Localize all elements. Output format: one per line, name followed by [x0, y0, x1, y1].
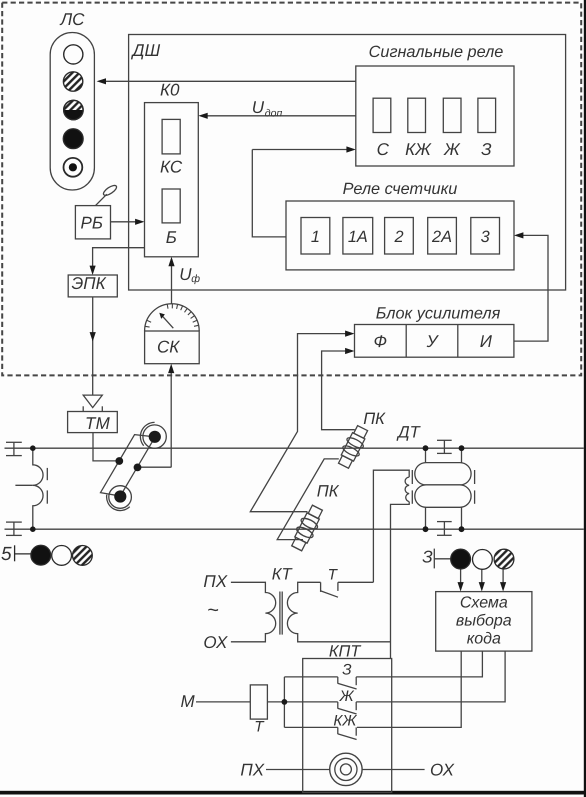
svg-text:Блок усилителя: Блок усилителя	[376, 305, 501, 323]
svg-text:ф: ф	[191, 273, 200, 285]
svg-text:ОХ: ОХ	[430, 760, 455, 779]
svg-text:КТ: КТ	[272, 566, 294, 584]
svg-text:КЖ: КЖ	[333, 713, 357, 730]
svg-text:ПХ: ПХ	[203, 572, 227, 591]
svg-text:3: 3	[481, 228, 490, 246]
svg-text:U: U	[252, 98, 265, 117]
svg-text:ДШ: ДШ	[131, 41, 161, 60]
svg-text:U: U	[179, 265, 192, 284]
svg-text:С: С	[377, 140, 390, 159]
svg-text:ОХ: ОХ	[203, 633, 228, 652]
svg-text:Сигнальные реле: Сигнальные реле	[369, 43, 504, 61]
svg-text:ЭПК: ЭПК	[72, 274, 107, 293]
svg-text:КС: КС	[160, 157, 183, 176]
svg-text:кода: кода	[467, 630, 501, 647]
svg-text:М: М	[181, 692, 196, 711]
svg-text:~: ~	[207, 600, 219, 622]
svg-text:ТМ: ТМ	[85, 414, 111, 433]
svg-text:Ф: Ф	[374, 332, 388, 351]
svg-text:Ж: Ж	[339, 688, 355, 705]
svg-text:З: З	[422, 547, 433, 566]
svg-text:ПХ: ПХ	[240, 760, 264, 779]
svg-text:Схема: Схема	[460, 594, 508, 611]
svg-text:доп: доп	[265, 107, 283, 119]
svg-text:1: 1	[311, 228, 320, 246]
svg-text:СК: СК	[157, 338, 180, 357]
svg-text:КЖ: КЖ	[405, 140, 432, 159]
svg-text:З: З	[481, 140, 492, 159]
svg-text:5: 5	[1, 544, 12, 565]
svg-text:Ж: Ж	[443, 140, 461, 159]
svg-text:З: З	[342, 662, 352, 679]
svg-text:Т: Т	[328, 566, 339, 583]
svg-text:Б: Б	[166, 228, 177, 247]
svg-text:ЛС: ЛС	[60, 10, 86, 29]
svg-text:2: 2	[393, 228, 403, 246]
svg-text:2А: 2А	[431, 228, 452, 246]
svg-text:ДТ: ДТ	[396, 423, 422, 441]
svg-text:Реле счетчики: Реле счетчики	[343, 180, 458, 198]
svg-text:И: И	[480, 332, 493, 351]
svg-text:Т: Т	[254, 719, 265, 736]
svg-text:РБ: РБ	[81, 214, 103, 233]
svg-text:КПТ: КПТ	[329, 642, 361, 660]
svg-text:К0: К0	[160, 80, 180, 99]
svg-text:ПК: ПК	[363, 410, 386, 428]
svg-text:выбора: выбора	[456, 612, 512, 629]
svg-text:1А: 1А	[348, 228, 368, 246]
svg-text:ПК: ПК	[317, 483, 340, 501]
svg-text:У: У	[426, 332, 440, 351]
